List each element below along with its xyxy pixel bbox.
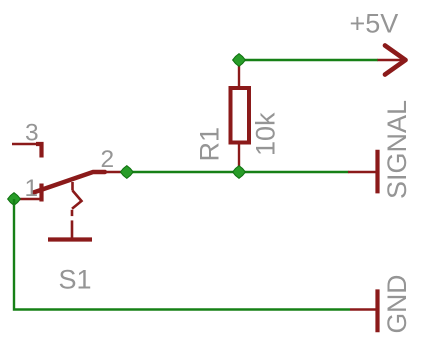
- svg-text:R1: R1: [195, 127, 225, 162]
- junction dot at switch pin 1: [8, 193, 21, 206]
- +5V supply symbol: [378, 46, 406, 75]
- GND terminal: [350, 289, 378, 332]
- junction dot at R1 bottom: [233, 166, 246, 179]
- svg-text:+5V: +5V: [350, 9, 399, 39]
- svg-text:S1: S1: [59, 265, 92, 295]
- actuator bar: [48, 237, 92, 241]
- pin 3 stub: [12, 143, 38, 145]
- wire from pin 1 down and right to GND: [14, 199, 350, 310]
- switch S1: [12, 144, 123, 240]
- SIGNAL terminal: [348, 150, 378, 194]
- svg-text:3: 3: [25, 120, 39, 147]
- svg-text:SIGNAL: SIGNAL: [382, 100, 412, 199]
- pin 1 contact bar: [39, 184, 43, 202]
- wire top rail from R1 top to +5V supply: [239, 59, 378, 61]
- pin 1 stub: [14, 198, 42, 200]
- junction dot at R1 top: [233, 54, 246, 67]
- actuator dashed shaft with spring: [71, 182, 74, 191]
- wire signal rail: [126, 171, 349, 173]
- svg-text:2: 2: [101, 146, 115, 173]
- pin 2 stub: [106, 171, 123, 173]
- resistor R1: [231, 60, 250, 172]
- svg-text:GND: GND: [382, 275, 412, 334]
- pin 3 contact: [36, 144, 42, 158]
- svg-text:10k: 10k: [251, 112, 281, 156]
- junction dot at switch pin 2: [120, 166, 133, 179]
- svg-text:1: 1: [25, 175, 39, 202]
- lever: [34, 172, 106, 193]
